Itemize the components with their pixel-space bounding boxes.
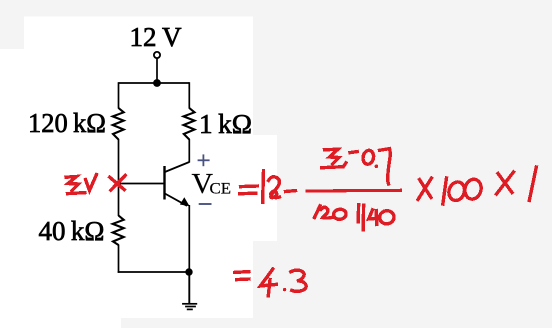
transistor Q1 emitter lead [165, 194, 187, 206]
svg-text:40 kΩ: 40 kΩ [39, 216, 105, 246]
red denominator 0 second [379, 210, 395, 225]
resistor 40 kOhm [113, 216, 124, 246]
red final 1 [529, 167, 536, 201]
red underline of 3 [68, 193, 86, 194]
wire to ground [188, 272, 190, 304]
white patch right of page [253, 135, 277, 241]
plus sign of VCE [198, 154, 210, 166]
red 1 of 100 [443, 178, 447, 204]
red denominator 0 [333, 208, 347, 220]
red decimal point numerator [375, 165, 379, 169]
red fraction bar [307, 189, 401, 193]
svg-text:1 kΩ: 1 kΩ [199, 109, 252, 139]
red 4 of result [260, 269, 276, 286]
red annotation group: handwriting [66, 149, 536, 296]
wire top horizontal [119, 82, 190, 84]
ground symbol [182, 304, 197, 310]
red minus after 12 [286, 189, 296, 193]
red 0 of 100 first [447, 180, 467, 203]
red X cross mark [110, 177, 125, 189]
svg-text:CE: CE [210, 181, 232, 198]
wire supply to top node [156, 58, 158, 83]
red 1 of 12 [261, 171, 265, 203]
red 0 numerator [362, 149, 375, 165]
white bottom-left strip [0, 318, 121, 328]
wire left rail upper [118, 82, 120, 108]
red denominator 1 [315, 206, 321, 218]
red denominator 2 [321, 207, 332, 218]
wire emitter vertical [188, 205, 190, 273]
red 2 of 12 [269, 177, 280, 198]
red 3 numerator [325, 149, 340, 164]
red 0 of 100 second [463, 178, 483, 201]
wire collector vertical [188, 139, 190, 163]
red denominator 4 [369, 210, 379, 219]
red 3 of "3V" [66, 177, 79, 191]
wire right rail upper [188, 82, 190, 108]
transistor Q1 emitter arrowhead [180, 197, 190, 206]
svg-text:120 kΩ: 120 kΩ [28, 108, 106, 138]
junction dot base node [116, 181, 121, 186]
wire left rail lower [118, 245, 120, 273]
red minus numerator [350, 152, 357, 153]
resistor 1 kOhm [184, 108, 195, 140]
red 7 numerator [380, 149, 391, 184]
wire left rail middle [118, 139, 120, 216]
transistor Q1 collector lead [165, 162, 190, 172]
red times sign 1 [420, 180, 432, 198]
red decimal point [283, 288, 286, 291]
red equals of result [235, 270, 249, 274]
resistor 120 kOhm [113, 108, 124, 140]
supply terminal circle [154, 52, 160, 58]
wire bottom horizontal [118, 271, 190, 273]
minus sign of VCE [199, 203, 212, 205]
white left strip [0, 49, 24, 328]
junction dot top node [153, 79, 161, 87]
svg-text:12 V: 12 V [130, 22, 182, 52]
red times sign 2 [498, 174, 512, 193]
wire base [119, 183, 164, 185]
red V check of "3V" [86, 175, 97, 191]
white page main [24, 17, 253, 319]
red equals of formula [241, 184, 258, 188]
red 3 of result [291, 270, 306, 291]
transistor Q1 base bar [163, 166, 165, 200]
red parallel bars [357, 205, 361, 222]
junction dot emitter bottom [185, 268, 192, 275]
